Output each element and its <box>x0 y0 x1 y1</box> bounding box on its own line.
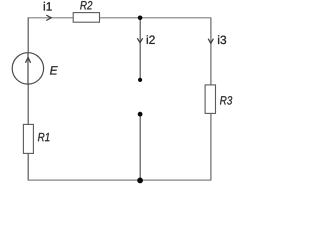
wire: right vertical branch <box>210 18 212 180</box>
current arrow i1 (right) <box>46 15 51 20</box>
node: bottom junction of middle branch <box>137 178 143 184</box>
wire: bottom horizontal <box>28 179 212 181</box>
node: lower open terminal of middle branch <box>138 112 143 117</box>
wire: middle branch upper segment <box>139 18 141 80</box>
node: upper open terminal of middle branch <box>138 78 142 82</box>
node: top junction of middle branch <box>138 15 143 20</box>
current arrow i2 (down) <box>137 38 142 43</box>
label R2 <box>80 1 92 9</box>
wire: top horizontal from left branch to right branch <box>28 17 212 19</box>
voltage source E (circle) <box>12 53 43 84</box>
voltage source E arrowhead (up) <box>26 58 31 63</box>
resistor R2 (horizontal box) <box>73 13 99 23</box>
label R3 <box>220 96 232 104</box>
wire: left vertical branch <box>27 18 29 180</box>
resistor R3 (vertical box) <box>205 85 215 114</box>
label i1 <box>44 2 52 11</box>
label i3 <box>218 35 226 44</box>
voltage source E internal arrow line <box>27 53 29 84</box>
current arrow i3 (down) <box>208 39 213 44</box>
resistor R1 (vertical box) <box>23 124 33 153</box>
label i2 <box>147 35 155 44</box>
wire: middle branch lower segment <box>139 114 141 180</box>
label E <box>50 66 58 74</box>
label R1 <box>38 133 49 141</box>
